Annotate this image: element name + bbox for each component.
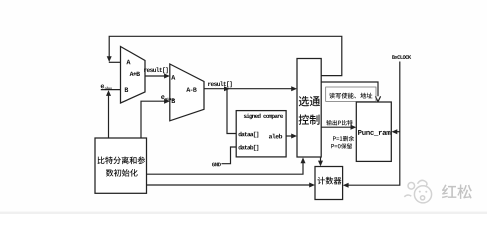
label: subtractor pin B (172, 99, 175, 104)
label: adder pin A (126, 60, 130, 64)
label: dataa[] (239, 132, 259, 138)
label: aleb (269, 134, 282, 139)
watermark 红松 (442, 185, 472, 199)
label: e_plus subscript (105, 87, 112, 90)
label: A-B (186, 88, 196, 92)
label: 读写使能、地址 (329, 93, 372, 99)
label: result[] subtractor (208, 81, 232, 87)
wire: adder result to subtractor A input (145, 75, 165, 77)
label: e_minus (161, 95, 164, 99)
label: 输出P比特 (326, 120, 352, 125)
label: GND (212, 163, 221, 167)
label: e_plus (101, 85, 104, 89)
signed compare block (236, 111, 286, 157)
bit separation / parameter init block (95, 138, 147, 193)
wire: control block down to counter (320, 157, 322, 162)
open arrowhead into Punc_ram top (375, 96, 380, 101)
label: A+B (130, 72, 140, 76)
wire: control to Punc_ram (read/write enable, address) (321, 82, 378, 96)
label: 比特分离和参 (98, 156, 146, 164)
wire: stub into adder A input (109, 61, 121, 63)
label: 计数器 (318, 177, 342, 185)
wire: bitsep block to control block bottom (147, 162, 304, 174)
wire: control to Punc_ram (output P bit) (321, 126, 351, 128)
label: result[] adder (144, 67, 168, 73)
wire: branch down into compare dataa input (227, 89, 236, 134)
wire: subtractor result to control block (204, 88, 293, 90)
counter block 计数器 (315, 167, 343, 200)
label: Punc_ram (358, 130, 390, 136)
label: P=0保留 (331, 143, 352, 148)
wire: bitsep block to counter left input (147, 184, 311, 186)
label: e_minus subscript (165, 98, 174, 101)
bottom edge artifact band (0, 212, 487, 214)
label: subtractor pin A (171, 75, 175, 80)
label: P=1删余 (333, 136, 354, 142)
wire: BxCLOCK vertical line (348, 62, 400, 186)
label: 选通 (299, 96, 320, 106)
label: datab[] (239, 145, 259, 151)
label: signed compare (244, 114, 283, 120)
wire: feedback from control block to adder A input (109, 36, 342, 75)
wire: clock branch into Punc_ram right (396, 131, 400, 133)
wire: e_minus from bitsep block to subtractor B input (141, 101, 165, 138)
wire: aleb from compare to control block (286, 135, 292, 137)
watermark icon (grey mascot face) (404, 180, 431, 203)
label: adder pin B (125, 88, 128, 93)
wire: e_plus into adder B input (101, 89, 121, 91)
wire: from bitsep block up to e_plus net (108, 95, 110, 138)
adder A+B (121, 47, 146, 104)
label: BxCLOCK (392, 55, 411, 59)
label: 控制 (299, 114, 320, 124)
subtractor A-B (170, 64, 204, 121)
label: 数初始化 (106, 169, 138, 177)
label box 读写使能、地址 (326, 87, 376, 101)
Punc_ram block (356, 102, 391, 161)
strobe control block 选通控制 (297, 59, 321, 158)
wire: GND to compare datab input (222, 147, 237, 164)
